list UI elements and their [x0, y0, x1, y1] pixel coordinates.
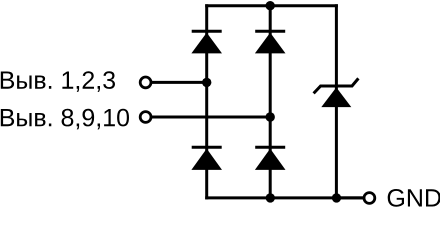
label node Выв. 1,2,3 [1, 71, 115, 92]
label GND [388, 189, 440, 207]
label node Выв. 8,9,10 [1, 109, 129, 130]
wire top bus [205, 4, 338, 7]
wire right branch vertical [335, 4, 338, 199]
diode VD3 bottom-left [191, 147, 222, 170]
terminal circle pins 8,9,10 [140, 112, 151, 123]
diode VD1 top-left [191, 31, 222, 53]
wire terminal 2 to middle branch [151, 116, 270, 119]
wire left branch vertical [205, 4, 208, 199]
wire bottom bus to GND terminal [336, 196, 363, 199]
junction node terminal1/left branch [202, 78, 211, 87]
diode VD2 top-middle [255, 31, 286, 53]
junction node terminal2/middle branch [266, 112, 275, 121]
diode VD4 bottom-middle [255, 147, 286, 170]
wire terminal 1 to left branch [151, 81, 207, 84]
terminal circle pins 1,2,3 [140, 77, 151, 88]
junction bottom middle [266, 193, 275, 202]
zener diode VD5 right branch [314, 78, 359, 107]
junction bottom right [332, 193, 341, 202]
junction top middle [266, 1, 275, 10]
wire bottom bus [205, 196, 363, 199]
terminal circle GND [364, 193, 375, 204]
wire middle branch vertical [269, 4, 272, 199]
